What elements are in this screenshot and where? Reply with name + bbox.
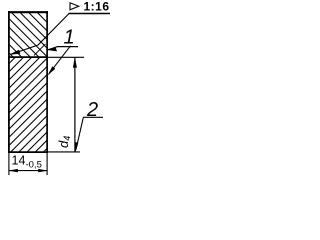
part 1 hatch (upper block, backslash direction) <box>0 0 90 134</box>
taper leader wire <box>11 14 69 55</box>
bottom dimension left arrowhead <box>9 169 18 172</box>
taper leader arrowhead <box>10 50 20 54</box>
right edge <box>46 11 48 153</box>
taper flag triangle <box>70 3 79 10</box>
bottom left extension line <box>8 152 10 175</box>
part 1 / part 2 outline <box>8 11 48 153</box>
label 2 arrowhead <box>75 142 78 151</box>
label 2 leader wire <box>76 118 83 150</box>
d4 label <box>56 136 72 148</box>
d4 lower extension line (bottom edge extended) <box>47 151 80 153</box>
interface line between part 1 and part 2 <box>8 56 48 58</box>
d4 top arrowhead <box>73 58 77 68</box>
svg-text:14: 14 <box>12 154 26 168</box>
taper flag shelf line <box>69 13 111 15</box>
bottom edge <box>8 151 48 153</box>
d4 dimension line <box>74 58 76 152</box>
left edge <box>8 11 10 153</box>
bottom dimension right arrowhead <box>38 169 47 172</box>
label 1 second leader arrowhead <box>48 67 55 75</box>
part 2 hatch overshoot line above interface <box>34 44 46 56</box>
d4 upper extension line (interface extended) <box>47 56 84 58</box>
part 2 hatch (lower block, slash direction) <box>0 0 196 196</box>
label 1 leader wire <box>48 47 57 50</box>
label 1 arrowhead <box>48 48 57 51</box>
bottom right extension line <box>46 152 48 175</box>
bottom dimension line <box>9 170 47 172</box>
label 2 shelf line <box>83 116 103 118</box>
label 1 shelf line <box>57 46 78 48</box>
svg-text:-0,5: -0,5 <box>26 160 42 171</box>
svg-text:1: 1 <box>64 27 75 49</box>
svg-text:1:16: 1:16 <box>84 0 110 13</box>
label 1 second leader wire to part 2 edge <box>49 46 71 74</box>
top edge <box>8 11 48 13</box>
